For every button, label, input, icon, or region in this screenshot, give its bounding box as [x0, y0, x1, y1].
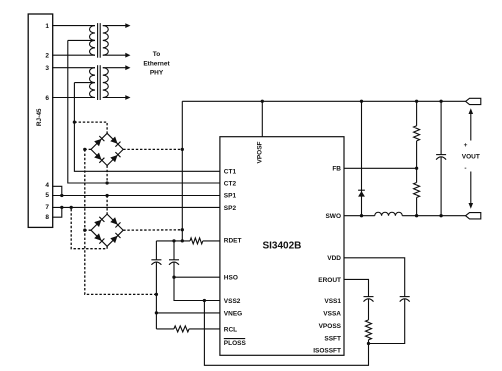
- wire T2 secondary top to PHY: [103, 67, 126, 69]
- capacitor C-EROUT: [364, 296, 374, 298]
- svg-text:8: 8: [45, 214, 49, 221]
- wire (dashed) BR2 top AC from SP1: [106, 196, 108, 215]
- svg-text:SSFT: SSFT: [324, 335, 341, 342]
- transformer T1 primary center-tap wire: [68, 39, 95, 41]
- node VNEG line tap: [155, 311, 158, 314]
- wire divider vertical upper: [416, 101, 418, 126]
- node pin4/pin5 join: [60, 194, 63, 197]
- node divider branch on rail: [415, 100, 418, 103]
- svg-text:1: 1: [45, 23, 49, 30]
- wire cap2 column upper: [173, 241, 175, 260]
- transformer T2 core: [97, 65, 99, 100]
- IC U1 Si3402B body: [220, 137, 344, 356]
- node BR2 right / VPOSF vertical: [181, 228, 184, 231]
- wire T1 secondary bottom to PHY: [103, 54, 126, 56]
- svg-text:RCL: RCL: [224, 326, 237, 333]
- wire EROUT cap to resistor: [368, 299, 370, 320]
- terminal VOUT+: [466, 98, 481, 104]
- wire T2 secondary bottom to PHY: [103, 97, 126, 99]
- VOUT measurement arrow upper: [470, 111, 472, 141]
- resistor R-EROUT: [366, 320, 372, 340]
- wire RCL line left: [156, 328, 174, 330]
- capacitor C1: [151, 259, 161, 261]
- inductor L1: [375, 212, 403, 215]
- svg-text:SP1: SP1: [224, 193, 237, 200]
- arrow to PHY 4: [125, 95, 130, 100]
- wire RDET to IC: [203, 240, 220, 242]
- node VSS2 / bottom return junction: [203, 299, 206, 302]
- wire T2 tap vertical to CT1 line: [74, 83, 220, 172]
- diode D1 catch diode: [358, 190, 365, 196]
- wire divider middle: [416, 141, 418, 183]
- node BR1 right / VPOSF vertical: [181, 148, 184, 151]
- node T2-tap / BR1 top junction: [73, 120, 76, 123]
- wire SWO line to VOUT-: [402, 215, 465, 217]
- wire (dashed) BR1 right DC+ to VPOSF vertical: [123, 148, 182, 150]
- node VNEG dashed joins cap1 column: [155, 293, 158, 296]
- diode bridge BR1 body: [91, 133, 123, 165]
- svg-text:SI3402B: SI3402B: [262, 241, 301, 252]
- node divider / SWO line: [415, 214, 418, 217]
- wire divider lower: [416, 198, 418, 216]
- wire RCL to IC: [189, 328, 220, 330]
- node cap2 top on RDET line: [172, 239, 175, 242]
- svg-text:SWO: SWO: [325, 213, 341, 220]
- wire (dashed) BR2 bottom AC to SP2: [71, 207, 107, 248]
- svg-text:+: +: [464, 142, 468, 149]
- wire cap1 column upper: [155, 241, 157, 260]
- wire HSO line: [174, 276, 220, 278]
- svg-text:RDET: RDET: [224, 238, 242, 245]
- terminal VOUT-: [466, 213, 481, 219]
- node output cap branch on rail: [439, 100, 442, 103]
- wire T1 tap vertical to CT2 line: [68, 40, 220, 183]
- wire EROUT line: [344, 279, 369, 296]
- wire bottom return (VSS2 to EROUT filter): [204, 301, 368, 366]
- diode bridge BR2 body: [91, 214, 123, 246]
- svg-text:FB: FB: [332, 166, 341, 173]
- svg-text:RJ-45: RJ-45: [36, 108, 43, 126]
- node FB / divider mid: [415, 167, 418, 170]
- capacitor C-OUT: [436, 154, 446, 156]
- svg-text:7: 7: [45, 204, 49, 211]
- wire (dashed) BR1 bottom AC to CT2 line: [106, 166, 108, 184]
- wire SWO line from IC: [344, 215, 375, 217]
- node VPOSF vertical end on RDET line: [181, 239, 184, 242]
- node diode / SWO line: [360, 214, 363, 217]
- svg-text:To: To: [153, 51, 160, 58]
- BR1 diode DD (bottom-to-right): [110, 152, 120, 162]
- capacitor C-VDD: [400, 296, 410, 298]
- transformer T2 secondary winding: [103, 68, 108, 98]
- node BR1 left corner: [83, 148, 86, 151]
- node output cap / SWO line: [439, 214, 442, 217]
- BR2 diode DA (left-to-top): [94, 217, 104, 227]
- svg-text:CT2: CT2: [224, 180, 237, 187]
- wire diode branch vertical: [361, 101, 363, 215]
- arrow to PHY 2: [125, 53, 130, 58]
- wire (dashed) BR1 top AC input: [74, 122, 107, 133]
- BR1 diode DC (left-to-bottom): [94, 153, 104, 163]
- svg-text:4: 4: [45, 182, 49, 189]
- wire VPOSF vertical (bridge DC+ bus): [181, 101, 183, 241]
- wire SP1 line (pin5) to IC: [52, 195, 220, 197]
- node BR1 bottom on CT2 line: [105, 181, 108, 184]
- wire VDD cap lower: [369, 299, 405, 344]
- node SP2 / BR2 bottom junction: [70, 206, 73, 209]
- RJ-45 connector body: [28, 14, 53, 227]
- svg-text:2: 2: [45, 53, 49, 60]
- wire (dashed) BR2 right DC+ to VPOSF vertical: [123, 229, 182, 231]
- svg-text:VSS1: VSS1: [324, 298, 341, 305]
- svg-text:PHY: PHY: [150, 69, 164, 76]
- wire output cap column upper: [440, 101, 442, 154]
- svg-text:PLOSS: PLOSS: [224, 340, 247, 347]
- wire pin1 to T1 top: [52, 25, 95, 27]
- wire pin2 to T1 bottom: [52, 54, 95, 56]
- transformer T1 secondary winding: [103, 26, 108, 56]
- wire output cap column lower: [440, 157, 442, 216]
- wire pin3 to T2 top: [52, 67, 95, 69]
- wire RDET line: [156, 240, 190, 242]
- arrow to PHY 1: [125, 23, 130, 28]
- BR1 diode DA (left-to-top): [94, 136, 104, 146]
- transformer T2 primary winding: [90, 68, 95, 98]
- resistor R-FB-bottom: [414, 183, 420, 198]
- svg-text:3: 3: [45, 65, 49, 72]
- node VPOSF pin junction: [261, 100, 264, 103]
- wire VNEG line to IC: [156, 312, 220, 314]
- svg-text:VSS2: VSS2: [224, 298, 241, 305]
- transformer T1 primary winding: [90, 26, 95, 56]
- wire (dashed) VNEG rail down left side: [85, 149, 157, 294]
- svg-text:CT1: CT1: [224, 169, 237, 176]
- wire SP2 line (pin7) to IC: [52, 206, 220, 208]
- BR2 diode DD (bottom-to-right): [110, 233, 120, 243]
- wire pin4 stub: [52, 186, 62, 195]
- node EROUT filter junction: [367, 342, 370, 345]
- wire pin8 stub: [52, 207, 62, 217]
- wire (dashed) BR2 left stub: [85, 229, 91, 231]
- wire cap2 column lower to VSS2: [174, 262, 220, 300]
- svg-text:Ethernet: Ethernet: [143, 61, 170, 68]
- resistor R-RDET: [190, 238, 203, 244]
- node SP1 / BR2 top junction: [105, 194, 108, 197]
- svg-text:6: 6: [45, 95, 49, 102]
- resistor R-FB-top: [414, 126, 420, 141]
- svg-text:HSO: HSO: [224, 275, 238, 282]
- svg-text:VDD: VDD: [327, 255, 341, 262]
- wire (dashed) BR1 left stub: [85, 148, 91, 150]
- transformer T2 primary center-tap wire: [74, 82, 95, 84]
- resistor R-RCL: [174, 326, 189, 332]
- BR2 diode DB (top-to-right): [110, 217, 120, 227]
- wire pin6 to T2 bottom: [52, 97, 95, 99]
- wire FB line: [344, 167, 417, 169]
- wire top rail VPOSF: [182, 100, 465, 102]
- wire T1 secondary top to PHY: [103, 25, 126, 27]
- VOUT measurement arrow lower: [470, 172, 472, 207]
- svg-text:VNEG: VNEG: [224, 310, 242, 317]
- svg-text:VPOSF: VPOSF: [257, 141, 264, 163]
- wire resistor to junction: [368, 340, 370, 344]
- node diode branch on rail: [360, 100, 363, 103]
- BR1 diode DB (top-to-right): [110, 137, 120, 147]
- svg-text:EROUT: EROUT: [318, 277, 341, 284]
- wire VPOSF pin vertical: [261, 101, 263, 136]
- node HSO tap: [172, 276, 175, 279]
- svg-text:SP2: SP2: [224, 205, 237, 212]
- node pin7/pin8 join: [60, 206, 63, 209]
- svg-text:VOUT: VOUT: [462, 154, 480, 161]
- BR2 diode DC (left-to-bottom): [94, 233, 104, 243]
- capacitor C2: [169, 259, 179, 261]
- transformer T1 core: [97, 23, 99, 58]
- svg-text:VPOSS: VPOSS: [319, 323, 342, 330]
- wire VDD line: [344, 258, 405, 297]
- arrow to PHY 3: [125, 65, 130, 70]
- svg-text:-: -: [464, 165, 466, 172]
- wire cap1 column lower: [155, 262, 157, 329]
- node BR2 left corner: [83, 229, 86, 232]
- svg-text:VSSA: VSSA: [323, 311, 341, 318]
- svg-text:5: 5: [45, 192, 49, 199]
- svg-text:ISOSSFT: ISOSSFT: [313, 348, 341, 355]
